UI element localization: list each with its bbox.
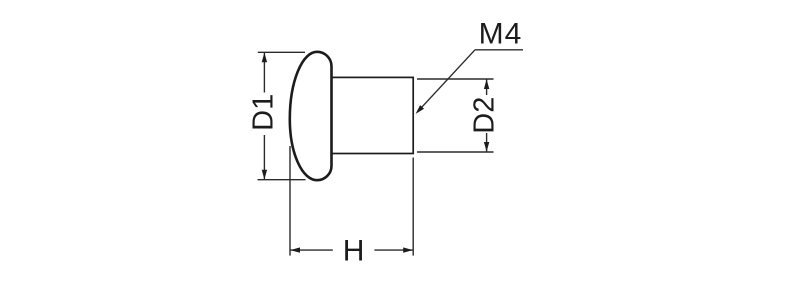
H dimension line right segment — [374, 249, 412, 251]
D1 dimension line upper segment — [263, 53, 265, 93]
D2 extension line bottom — [417, 151, 494, 153]
M4 leader horizontal line — [475, 49, 523, 51]
svg-text:D2: D2 — [469, 97, 501, 134]
D1 extension line top — [258, 51, 305, 53]
M4 leader arrowhead — [416, 105, 424, 114]
H extension line left — [289, 146, 291, 256]
M4 leader diagonal line — [418, 50, 476, 112]
H extension line right — [412, 158, 414, 256]
H arrow left — [290, 247, 300, 252]
D2 arrow down — [484, 142, 489, 152]
H arrow right — [403, 247, 413, 252]
D2 arrow up — [484, 79, 489, 89]
svg-text:M4: M4 — [479, 18, 523, 51]
D2 dimension line lower segment — [486, 133, 488, 152]
svg-text:H: H — [343, 234, 365, 267]
H dimension line left segment — [291, 249, 333, 251]
D1 extension line bottom — [258, 179, 306, 181]
D1 dimension line lower segment — [263, 135, 265, 179]
D2 extension line top — [417, 78, 494, 80]
D1 arrow up — [262, 53, 267, 63]
D2 dimension line upper segment — [486, 80, 488, 96]
D1 arrow down — [262, 170, 267, 180]
knob head outline — [290, 52, 332, 180]
cylinder body rectangle — [332, 77, 414, 153]
svg-text:D1: D1 — [248, 94, 280, 131]
